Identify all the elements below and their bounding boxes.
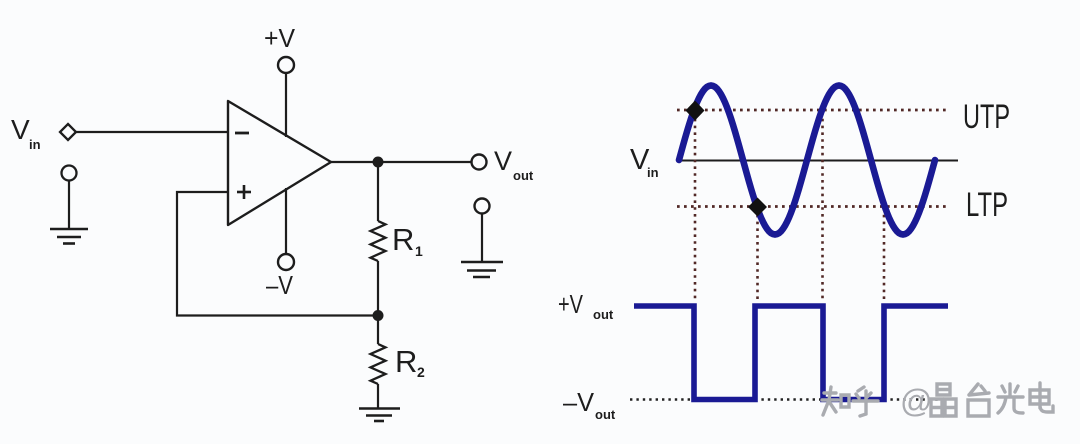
trigger line UTP (dotted) (677, 109, 948, 112)
svg-text:UTP: UTP (963, 98, 1010, 136)
svg-text:in: in (647, 165, 659, 180)
svg-text:V: V (11, 114, 30, 145)
label +Vout (558, 289, 614, 322)
dotted baseline -Vout level (630, 398, 948, 400)
svg-text:out: out (513, 168, 534, 183)
resistor R2 (371, 344, 386, 384)
svg-text:–V: –V (266, 270, 294, 300)
wire output (331, 161, 471, 163)
wire R2 to ground (377, 384, 379, 408)
axis Vin waveform (681, 160, 958, 162)
wire output node to R1 (377, 162, 379, 221)
svg-text:out: out (593, 307, 614, 322)
wire R1 to feedback node (377, 261, 379, 316)
marker diamond at LTP crossing (748, 198, 767, 217)
marker diamond at UTP crossing (686, 101, 705, 121)
feedback node (373, 310, 384, 321)
wire +V to op-amp (285, 73, 287, 137)
non-inverting input plus sign (237, 185, 251, 199)
dotted vertical at first UTP crossing (694, 112, 697, 301)
watermark zhihu text (822, 387, 878, 416)
svg-text:R: R (395, 344, 417, 379)
-V terminal (circle) (278, 254, 294, 270)
trigger line LTP (dotted) (677, 205, 948, 208)
svg-text:R: R (392, 222, 414, 257)
+V terminal (circle) (278, 57, 294, 73)
resistor R1 (371, 221, 386, 261)
label R1 (392, 222, 423, 259)
dotted vertical at first LTP crossing (756, 208, 759, 301)
svg-text:LTP: LTP (966, 186, 1008, 224)
watermark jing tai guang dian (931, 383, 1053, 416)
input terminal (diamond) (60, 124, 76, 140)
square wave Vout (634, 306, 948, 400)
svg-text:@: @ (900, 383, 932, 419)
svg-text:+V: +V (264, 23, 296, 53)
wire feedback loop (177, 192, 378, 316)
svg-text:2: 2 (417, 364, 425, 380)
wire Vin to inverting input (76, 131, 228, 133)
label R2 (395, 344, 425, 380)
glyph dian (1030, 383, 1053, 412)
svg-text:+V: +V (558, 289, 584, 319)
glyph hu (853, 387, 878, 416)
ground (Vout) (461, 262, 503, 277)
label Vin (waveform) (630, 144, 659, 180)
wire op-amp to -V (285, 188, 287, 254)
ground (R2) (359, 409, 400, 422)
dotted vertical at second UTP crossing (821, 112, 824, 301)
svg-text:V: V (494, 146, 512, 176)
svg-text:out: out (595, 407, 616, 422)
input ground terminal (circle) (62, 166, 77, 181)
sine wave Vin (679, 86, 935, 235)
junction output node (373, 157, 384, 168)
svg-text:–V: –V (563, 387, 595, 417)
ground (input) (50, 229, 88, 244)
glyph guang (998, 384, 1023, 413)
svg-text:1: 1 (415, 243, 423, 259)
glyph zhi (822, 387, 849, 415)
inverting input minus sign (235, 132, 249, 135)
dotted vertical at second LTP crossing (883, 208, 886, 301)
glyph jing (931, 384, 956, 416)
svg-text:in: in (29, 137, 41, 152)
label Vout (494, 146, 534, 183)
Vout ground terminal (circle) (475, 199, 490, 214)
label -Vout (563, 387, 616, 422)
wire node to R2 (377, 316, 379, 345)
label Vin (11, 114, 41, 152)
glyph tai (968, 384, 989, 416)
op-amp U1 (228, 101, 331, 225)
wire terminal to ground (68, 181, 70, 228)
wire Vout terminal to ground (481, 213, 483, 261)
Vout terminal (circle) (472, 155, 487, 170)
